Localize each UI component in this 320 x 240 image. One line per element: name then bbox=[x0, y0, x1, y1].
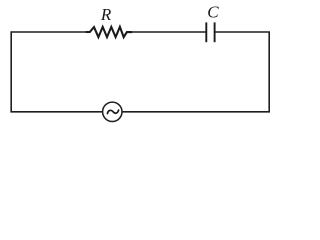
wire: top-left horizontal segment bbox=[11, 32, 86, 112]
capacitor C : right plate bbox=[214, 22, 216, 42]
wire: source to bottom right segment bbox=[122, 111, 270, 113]
AC source: sine symbol bbox=[107, 110, 118, 114]
svg-text:R: R bbox=[100, 5, 112, 24]
AC source: circle bbox=[103, 102, 122, 121]
wire: capacitor to right side, down bbox=[215, 32, 270, 112]
wire: resistor to capacitor segment bbox=[132, 31, 206, 33]
capacitor C : left plate bbox=[205, 22, 207, 42]
wire: bottom left segment to source bbox=[10, 111, 102, 113]
resistor R bbox=[86, 27, 133, 37]
svg-text:C: C bbox=[207, 3, 219, 22]
